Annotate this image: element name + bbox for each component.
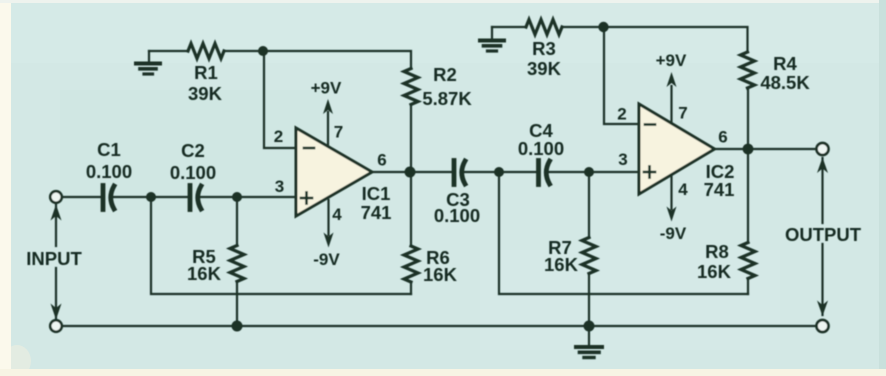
wire: IC2 output to node K	[715, 148, 749, 150]
wire: input top terminal to C1	[62, 196, 101, 198]
resistor R3	[526, 20, 562, 35]
wire: C1 to node B	[111, 196, 151, 198]
resistor R1	[188, 44, 224, 59]
wire: node F to C4	[499, 171, 536, 173]
svg-text:16K: 16K	[423, 264, 458, 285]
wire: node E to C3	[410, 171, 452, 173]
svg-text:6: 6	[718, 128, 727, 147]
svg-text:4: 4	[332, 205, 342, 224]
capacitor C3	[454, 161, 465, 185]
wire: R4 bottom to output node	[747, 88, 749, 149]
wire: node G down to R7	[588, 172, 590, 238]
svg-text:6: 6	[377, 151, 386, 170]
node H (R7 on rail)	[584, 321, 595, 332]
svg-text:2: 2	[617, 105, 626, 124]
terminal: input bottom	[50, 320, 62, 332]
svg-text:R1: R1	[194, 62, 218, 83]
IC2 +9V supply arrow pin 7	[667, 72, 677, 123]
wire: R1 to R2 top corner	[224, 51, 411, 69]
svg-text:2: 2	[274, 127, 283, 146]
svg-text:16K: 16K	[544, 254, 579, 275]
svg-text:39K: 39K	[188, 83, 223, 104]
capacitor C4	[539, 161, 550, 185]
op-amp U2 IC2	[639, 104, 715, 194]
svg-text:C1: C1	[97, 139, 121, 160]
wire: node C down to R5	[236, 197, 238, 246]
op-amp U1 IC1	[296, 128, 372, 216]
wire: node K to output terminal	[748, 148, 816, 150]
svg-text:OUTPUT: OUTPUT	[785, 224, 862, 245]
ground G2 (left of R3)	[480, 27, 504, 51]
wire: node B to C2	[151, 196, 188, 198]
node B (C1/C2 junction)	[146, 192, 156, 202]
IC2 -9V supply arrow pin 4	[667, 176, 677, 222]
svg-text:0.100: 0.100	[434, 205, 480, 226]
IC1 -9V supply arrow pin 4	[324, 200, 334, 248]
svg-text:48.5K: 48.5K	[760, 72, 810, 93]
svg-text:0.100: 0.100	[170, 162, 216, 183]
capacitor C1	[103, 186, 114, 210]
node K (IC2 out/R4/R8)	[743, 144, 754, 155]
ground rail wire	[62, 325, 816, 327]
wire: ground to R3	[492, 26, 526, 28]
node A (junction R1/feed to pin2)	[258, 46, 268, 56]
wire: R6 leads	[410, 282, 412, 294]
svg-text:R2: R2	[433, 64, 457, 85]
wire: ground to R1	[149, 50, 188, 52]
node F (C3/C4 junction)	[494, 167, 504, 177]
svg-text:R4: R4	[773, 53, 797, 74]
svg-text:-9V: -9V	[313, 250, 340, 269]
svg-text:16K: 16K	[187, 263, 222, 284]
node E (IC1 out/R2/R6/C3)	[405, 167, 416, 178]
svg-text:741: 741	[361, 202, 392, 223]
svg-text:4: 4	[678, 180, 688, 199]
wire: feedback node F down and right to R8	[499, 172, 748, 294]
svg-text:39K: 39K	[527, 58, 562, 79]
node D (R5 on rail)	[232, 321, 243, 332]
svg-text:-9V: -9V	[660, 224, 687, 243]
svg-text:16K: 16K	[697, 261, 732, 282]
svg-text:+9V: +9V	[656, 51, 687, 70]
node G (C4/R7/pin3 junction)	[584, 167, 594, 177]
ground G1 (left of R1)	[136, 51, 160, 74]
svg-text:R3: R3	[532, 38, 556, 59]
resistor R8	[741, 243, 755, 279]
wire: feedback node B down and right to R6	[151, 197, 411, 294]
resistor R6	[404, 246, 418, 282]
wire: R8 leads	[747, 279, 749, 295]
resistor R4	[741, 52, 755, 88]
wire: node C to IC1 pin 3	[237, 196, 296, 198]
resistor R5	[230, 246, 244, 282]
terminal: output bottom	[817, 320, 829, 332]
node C (C2/R5/pin3 junction)	[232, 192, 242, 202]
IC1 +9V supply arrow pin 7	[323, 99, 333, 146]
wire: node A down to IC1 pin 2	[264, 51, 296, 148]
wire: R5 bottom to ground rail	[236, 282, 238, 327]
svg-text:C2: C2	[181, 140, 205, 161]
wire: R3 to R4 top corner	[562, 27, 748, 52]
svg-text:7: 7	[334, 123, 343, 142]
wire: C4 to node G	[547, 171, 590, 173]
wire: R2 bottom to output node	[410, 105, 412, 173]
capacitor C2	[190, 186, 201, 210]
resistor R7	[582, 238, 596, 274]
wire: node J down to IC2 pin 2	[604, 27, 639, 124]
wire: IC1 output to node E	[372, 171, 410, 173]
svg-text:0.100: 0.100	[518, 138, 564, 159]
wire: R7 bottom to rail	[588, 274, 590, 327]
wire: C3 to node F	[462, 171, 499, 173]
terminal: output top	[817, 143, 829, 155]
svg-text:INPUT: INPUT	[26, 248, 82, 269]
svg-text:3: 3	[275, 177, 284, 196]
node J (junction R3/feed to pin2)	[598, 22, 608, 32]
terminal: input top	[50, 191, 62, 203]
svg-text:0.100: 0.100	[86, 161, 132, 182]
svg-text:IC1: IC1	[362, 183, 391, 204]
svg-text:R8: R8	[705, 241, 729, 262]
wire: node G to IC2 pin 3	[589, 171, 639, 173]
ground G3 (below rail)	[576, 326, 602, 358]
svg-text:7: 7	[678, 104, 687, 123]
svg-text:+9V: +9V	[311, 79, 342, 98]
svg-text:3: 3	[618, 150, 627, 169]
svg-text:5.87K: 5.87K	[422, 88, 472, 109]
input span line with arrows	[51, 205, 62, 320]
svg-text:741: 741	[704, 179, 735, 200]
output span line with arrows	[817, 158, 828, 317]
resistor R2	[404, 69, 418, 105]
wire: C2 to node C	[198, 196, 237, 198]
